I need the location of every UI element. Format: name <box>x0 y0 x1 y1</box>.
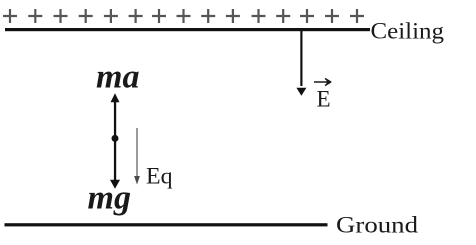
svg-text:ma: ma <box>96 58 139 95</box>
force arrow Eq (down, gray) <box>134 128 140 185</box>
svg-text:E: E <box>317 87 331 112</box>
svg-text:mg: mg <box>88 180 131 217</box>
svg-text:Ground: Ground <box>336 212 419 237</box>
label E with vector arrow <box>314 79 332 112</box>
svg-text:Ceiling: Ceiling <box>371 19 445 44</box>
force arrow ma (double-headed vertical, up tip) <box>110 93 120 189</box>
svg-text:Eq: Eq <box>146 164 173 189</box>
charge dot (point mass) <box>112 135 119 142</box>
ceiling line <box>5 28 370 31</box>
ground line <box>5 223 328 226</box>
plus charges row on ceiling <box>3 9 364 23</box>
E field arrow (down from ceiling) <box>296 30 306 96</box>
